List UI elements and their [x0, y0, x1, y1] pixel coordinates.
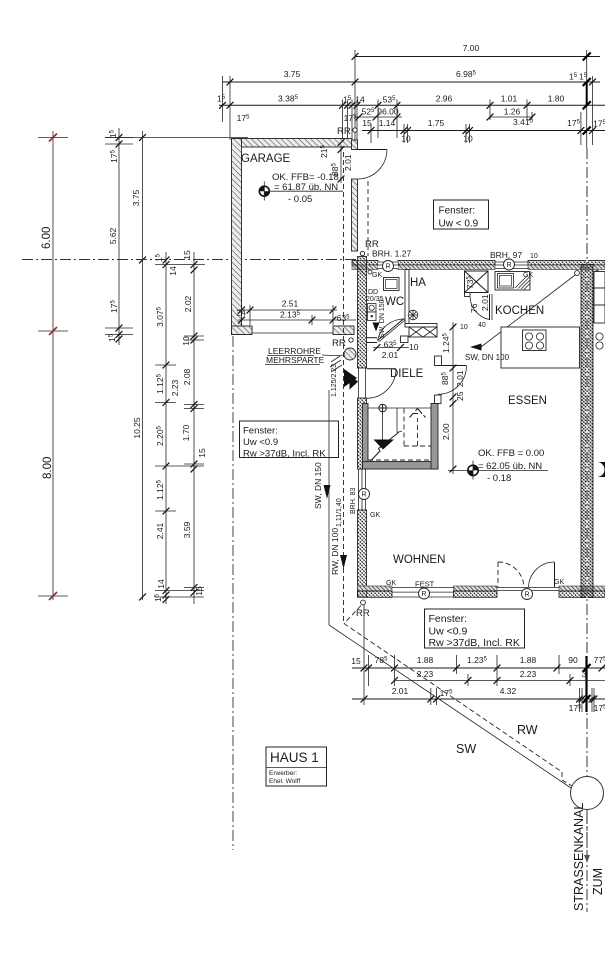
- svg-text:STRASSENKANAL: STRASSENKANAL: [572, 803, 586, 911]
- terrace door arcs: [498, 562, 555, 588]
- svg-text:2.23: 2.23: [417, 669, 434, 679]
- bottom window FEST: [392, 586, 454, 588]
- svg-text:7.00: 7.00: [463, 43, 480, 53]
- dashed path from side door: [367, 181, 369, 256]
- svg-text:RW, DN 100: RW, DN 100: [330, 528, 340, 575]
- svg-text:RR: RR: [356, 608, 370, 619]
- long dash-dot centre line vertical (party wall): [586, 148, 588, 912]
- street inspection chamber: [571, 777, 604, 810]
- ventilator fan: [408, 310, 418, 320]
- svg-text:2.01: 2.01: [455, 370, 465, 387]
- sink unit: [495, 272, 530, 291]
- svg-text:GK: GK: [372, 272, 382, 279]
- svg-text:1.14: 1.14: [379, 118, 396, 128]
- svg-text:1.75: 1.75: [428, 118, 445, 128]
- svg-text:Fenster:: Fenster:: [243, 426, 278, 437]
- svg-text:FEST: FEST: [415, 580, 435, 589]
- garage inner dim 2.51 / 24: [238, 309, 337, 311]
- dashed arrow below: [586, 810, 588, 855]
- dashed RW diagonal: [344, 624, 562, 773]
- party wall: [581, 265, 593, 598]
- Fenster box 2 (left): [240, 421, 339, 460]
- black arrow near pipe: [344, 369, 357, 387]
- top wall segments: [352, 261, 378, 266]
- party wall centreline over walls: [586, 258, 588, 600]
- diagonal cut line: [371, 433, 399, 462]
- row3: [219, 104, 605, 106]
- SW pipe diagonal through kitchen: [481, 272, 579, 347]
- RR bottom left: [361, 600, 366, 605]
- svg-text:BRH. 1.27: BRH. 1.27: [372, 249, 411, 259]
- svg-text:96.00: 96.00: [377, 106, 399, 116]
- svg-text:2.23: 2.23: [170, 379, 180, 396]
- bottom wall: right piece: [559, 586, 605, 591]
- svg-text:2.23: 2.23: [520, 669, 537, 679]
- svg-text:1.125/2.23: 1.125/2.23: [331, 364, 338, 397]
- svg-text:DD: DD: [368, 289, 378, 296]
- svg-text:3.59: 3.59: [182, 521, 192, 538]
- bottom wall: middle piece: [454, 586, 498, 591]
- svg-text:SW, DN 100: SW, DN 100: [465, 353, 510, 362]
- svg-text:GK: GK: [370, 512, 380, 519]
- dashed arrow up: [417, 418, 419, 446]
- svg-text:2.01: 2.01: [392, 686, 409, 696]
- left wall between door and window: [358, 398, 367, 469]
- svg-text:WOHNEN: WOHNEN: [393, 554, 445, 566]
- garage bottom wall left piece: [232, 326, 253, 335]
- svg-text:Fenster:: Fenster:: [429, 613, 468, 625]
- WC door leaf: [378, 319, 405, 341]
- svg-text:90: 90: [568, 655, 578, 665]
- long dash-dot centre line horizontal: [22, 259, 356, 261]
- svg-text:2.00: 2.00: [441, 423, 451, 440]
- left wall window (BRH 83): [358, 469, 360, 510]
- svg-text:5.62: 5.62: [108, 227, 118, 244]
- svg-text:HA: HA: [410, 277, 426, 289]
- row1 7.00: [355, 56, 600, 58]
- left wall upper (beside DIELE): [358, 257, 367, 369]
- svg-text:25: 25: [455, 391, 465, 401]
- chain x=142.5 : 3.75 / 10.25: [142, 131, 144, 600]
- svg-text:Fenster:: Fenster:: [439, 206, 476, 217]
- svg-text:1,11/1,40: 1,11/1,40: [336, 498, 343, 527]
- svg-text:WC: WC: [385, 296, 404, 308]
- svg-text:76: 76: [469, 303, 479, 313]
- cooktop: [523, 330, 547, 351]
- solid SW diagonal: [329, 625, 571, 788]
- garage bottom wall right piece: [333, 326, 354, 335]
- WC/HA divider wall: [405, 270, 409, 324]
- window 2 top (KOCHEN): [495, 261, 528, 263]
- svg-text:3: 3: [582, 669, 587, 679]
- svg-text:1.01: 1.01: [501, 93, 518, 103]
- door dim 88-5 / 2.01 rotated: [340, 146, 342, 183]
- chain x=194: [193, 252, 195, 604]
- svg-text:- 0.05: - 0.05: [288, 194, 312, 205]
- sewer pipes to street: [329, 600, 605, 911]
- row2 3.75 / 6.98-5: [223, 81, 601, 83]
- svg-text:Rw >37dB, Incl. RK: Rw >37dB, Incl. RK: [429, 637, 520, 649]
- svg-text:SW, DN 150: SW, DN 150: [313, 462, 323, 509]
- svg-text:1.88: 1.88: [417, 655, 434, 665]
- svg-text:15: 15: [197, 448, 207, 458]
- svg-text:10: 10: [463, 134, 473, 144]
- svg-text:Uw <0.9: Uw <0.9: [243, 437, 278, 448]
- svg-text:40: 40: [478, 322, 486, 329]
- line x397: [396, 408, 398, 433]
- SW DN150 arrow in WC: [373, 323, 380, 332]
- svg-text:GK: GK: [386, 580, 396, 587]
- svg-text:SW: SW: [456, 742, 476, 756]
- svg-text:6.00: 6.00: [41, 227, 53, 249]
- level symbol: [259, 182, 343, 201]
- house interior: [350, 270, 580, 567]
- corner diag marks: [353, 263, 366, 276]
- svg-text:10: 10: [401, 134, 411, 144]
- svg-text:14: 14: [156, 579, 166, 589]
- entry door: [367, 368, 396, 370]
- svg-text:OK. FFB = 0.00: OK. FFB = 0.00: [478, 448, 544, 459]
- svg-text:2.01: 2.01: [480, 294, 490, 311]
- svg-text:2.02: 2.02: [183, 295, 193, 312]
- dashed upper flight: [403, 409, 405, 447]
- boundary dash-dot below garage: [232, 336, 234, 850]
- svg-text:15: 15: [362, 118, 372, 128]
- svg-text:1.70: 1.70: [181, 424, 191, 441]
- extension verticals: [363, 600, 365, 705]
- garage side door leaf and swing: [358, 149, 388, 151]
- dashed RW pipe vertical from garage: [343, 152, 345, 624]
- svg-text:10: 10: [530, 253, 538, 260]
- Fenster box 3 (bottom): [425, 609, 525, 649]
- garage top wall: [232, 139, 353, 148]
- WC bottom wall left stub: [367, 337, 378, 339]
- svg-text:14: 14: [355, 94, 365, 104]
- row3: [352, 698, 605, 700]
- row2: [395, 680, 605, 682]
- svg-text:10: 10: [181, 336, 191, 346]
- washbasin: [384, 278, 400, 291]
- svg-text:1.80: 1.80: [548, 93, 565, 103]
- svg-text:BRH. 97: BRH. 97: [490, 250, 522, 260]
- svg-text:Rw >37dB, Incl. RK: Rw >37dB, Incl. RK: [243, 449, 326, 460]
- svg-text:RW: RW: [517, 723, 538, 737]
- small pipe circle at corner: [368, 270, 372, 274]
- svg-text:2.51: 2.51: [282, 299, 299, 309]
- WC bottom wall right stub: [401, 336, 409, 343]
- garage left wall: [232, 139, 242, 335]
- svg-text:2.01: 2.01: [382, 350, 399, 360]
- svg-text:RR: RR: [337, 126, 351, 137]
- top dimension chains: [217, 43, 605, 148]
- chain x=166: [165, 252, 167, 604]
- svg-text:MEHRSPARTE: MEHRSPARTE: [266, 355, 325, 365]
- garage door threshold line: [252, 332, 333, 334]
- svg-text:4.32: 4.32: [500, 686, 517, 696]
- svg-text:Uw < 0.9: Uw < 0.9: [439, 219, 479, 230]
- 1.24-5 dim: [452, 322, 454, 474]
- svg-text:8.00: 8.00: [42, 457, 54, 479]
- bottom terrace door threshold: [497, 586, 559, 588]
- SW DN100 arrow: [470, 344, 482, 351]
- neighbour house fragments: [594, 272, 605, 478]
- row1: [352, 667, 605, 669]
- svg-text:14: 14: [168, 266, 178, 276]
- svg-text:ESSEN: ESSEN: [508, 395, 547, 407]
- window 1 top (BRH 1.27): [378, 262, 398, 269]
- symbols on wall: [368, 304, 377, 313]
- svg-text:3.75: 3.75: [284, 69, 301, 79]
- circle plus: [379, 404, 387, 412]
- kitchen counter: [501, 327, 580, 368]
- svg-text:2.41: 2.41: [155, 522, 165, 539]
- svg-text:ZUM: ZUM: [591, 868, 605, 895]
- svg-text:10: 10: [460, 324, 468, 331]
- extension verticals top: [354, 50, 356, 148]
- svg-text:15: 15: [182, 250, 192, 260]
- kitchen door leaf + arc: [489, 294, 491, 320]
- svg-text:GARAGE: GARAGE: [241, 153, 291, 165]
- bottom dimension chains: [351, 600, 605, 713]
- WC door dims: [373, 347, 409, 349]
- svg-text:15: 15: [351, 656, 361, 666]
- row4 labels: [355, 116, 402, 118]
- short horizontal extension lines: [155, 264, 205, 266]
- chimney box KOCHEN: [465, 271, 489, 293]
- house outer walls: [352, 239, 605, 600]
- garage inner dim 2.13-5 / 63-5: [238, 319, 356, 321]
- stair interior top line: [368, 407, 431, 409]
- svg-text:Uw <0.9: Uw <0.9: [429, 626, 468, 638]
- bottom wall: left piece: [358, 586, 393, 591]
- left dimension chains: [38, 128, 248, 604]
- svg-text:KOCHEN: KOCHEN: [495, 305, 544, 317]
- svg-text:10.25: 10.25: [132, 417, 142, 439]
- svg-text:1.26: 1.26: [504, 106, 521, 116]
- svg-text:3.75: 3.75: [131, 189, 141, 206]
- svg-text:Ehel. Wolff: Ehel. Wolff: [269, 778, 300, 785]
- chain x=119 : 5.62: [118, 128, 120, 345]
- svg-text:GK: GK: [523, 272, 533, 279]
- staircase: [363, 404, 439, 470]
- Fenster box 1 (top): [434, 200, 489, 230]
- svg-text:GK: GK: [554, 579, 564, 586]
- svg-text:Erwerber:: Erwerber:: [269, 770, 297, 777]
- HAUS 1 title box: [266, 747, 327, 786]
- solid SW pipe vertical: [328, 390, 330, 625]
- site boundary dim line 6.00 / 8.00: [52, 131, 54, 600]
- row5: [362, 130, 605, 132]
- svg-text:BRH. 83: BRH. 83: [350, 487, 357, 514]
- svg-text:2.96: 2.96: [436, 93, 453, 103]
- svg-text:DIELE: DIELE: [390, 368, 424, 380]
- gray stair walls: [363, 404, 369, 470]
- HA bottom wall: [405, 324, 437, 328]
- garage right wall upper pier: [352, 140, 358, 150]
- window R markers: [383, 261, 394, 272]
- svg-text:10: 10: [409, 342, 419, 352]
- black down arrow: [374, 440, 395, 450]
- svg-text:1.88: 1.88: [520, 655, 537, 665]
- RR circles at party wall: [575, 271, 580, 276]
- svg-text:2.01: 2.01: [343, 154, 353, 171]
- DIELE-ESSEN door: [435, 356, 467, 472]
- svg-text:HAUS 1: HAUS 1: [270, 750, 319, 765]
- wall stub below chimney: [465, 293, 471, 297]
- grille under HA wall: [409, 327, 437, 337]
- garage right wall below door: [352, 179, 358, 251]
- left wall lower: [358, 510, 367, 597]
- garage: [232, 126, 388, 625]
- svg-text:2.08: 2.08: [182, 368, 192, 385]
- svg-text:- 0.18: - 0.18: [487, 473, 511, 484]
